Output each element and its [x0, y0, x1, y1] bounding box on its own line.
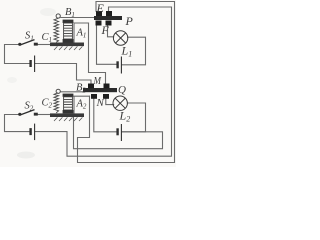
node A1 frame box	[74, 23, 89, 42]
wire battery1 right to contact M-left	[35, 64, 91, 84]
contact N left square	[91, 94, 97, 99]
switch S2	[18, 110, 38, 116]
svg-text:A1: A1	[76, 28, 87, 40]
svg-text:C1: C1	[42, 32, 53, 44]
contact N right square	[103, 94, 109, 99]
relay2 core top cap	[63, 94, 74, 97]
svg-text:B1: B1	[65, 7, 75, 19]
battery L2 (lamp circuit 2)	[118, 124, 122, 141]
wire S2 right to relay2 base	[38, 114, 51, 116]
wire armature B2 bar	[61, 91, 84, 93]
relay2 base hatching	[54, 117, 82, 121]
svg-text:F: F	[101, 23, 110, 37]
svg-text:Q: Q	[118, 84, 126, 96]
relay1 core top cap	[63, 20, 74, 23]
wire battery L2 right extension to relay2 base	[74, 117, 163, 149]
relay1 armature bar P	[94, 16, 122, 20]
relay1 coil winding	[64, 23, 73, 39]
contact E right square	[106, 11, 112, 16]
relay2 base	[50, 113, 84, 117]
contact M left square	[88, 84, 94, 89]
wire F-left down to lamp battery L1 left	[97, 25, 117, 64]
contact F left square	[96, 21, 102, 26]
svg-text:L1: L1	[121, 44, 133, 59]
relay2 spring C2	[54, 93, 59, 113]
wire E-right long loop to battery2 right	[35, 7, 171, 156]
lamp L1	[113, 31, 127, 45]
relay2 coil winding	[64, 97, 73, 110]
svg-text:S1: S1	[25, 31, 34, 43]
relay1 core bottom cap	[63, 39, 74, 43]
wire F-right to lamp L1	[108, 25, 114, 37]
svg-text:E: E	[96, 1, 105, 15]
smudge	[17, 152, 35, 159]
svg-text:M: M	[93, 75, 102, 87]
svg-text:N: N	[96, 97, 105, 109]
relay1 base hatching	[54, 46, 82, 50]
svg-text:L2: L2	[119, 109, 131, 124]
node A2 frame box	[74, 96, 90, 113]
contact F right square	[106, 21, 112, 26]
relay2 core bottom cap	[63, 110, 74, 113]
wire S1 right to relay1 base	[38, 44, 51, 46]
svg-text:P: P	[125, 14, 134, 28]
relay2 armature pivot	[56, 89, 60, 93]
wire lamp L2 right to battery L2 right	[122, 103, 146, 132]
svg-text:A2: A2	[76, 99, 87, 111]
contact M right square	[104, 84, 110, 89]
svg-text:S2: S2	[25, 101, 34, 113]
wire S2 left to battery2 left	[5, 115, 30, 132]
battery2 (coil circuit 2)	[31, 124, 35, 141]
switch S1	[18, 40, 38, 46]
relay1 spring C1	[54, 18, 59, 42]
svg-text:B2: B2	[76, 83, 86, 95]
svg-text:C2: C2	[42, 98, 53, 110]
wire coil1 return (A1 edge) to contact M-right	[89, 23, 106, 84]
battery1 (coil circuit 1)	[31, 56, 35, 73]
wire S1 left to battery B1-	[5, 45, 30, 64]
wire lamp L1 right loop to battery right	[122, 37, 146, 65]
relay2 armature bar Q	[83, 88, 117, 92]
wire E-left outer loop to coil2 return	[78, 2, 175, 163]
wire N-left down to battery L2 left	[94, 99, 117, 132]
relay1 base	[50, 43, 84, 47]
wire N-right to lamp L2	[106, 99, 114, 105]
relay1 armature pivot	[56, 14, 60, 18]
lamp L2	[113, 96, 127, 110]
wire armature B1 bar	[61, 17, 95, 19]
battery L1 (lamp circuit 1)	[118, 57, 122, 74]
contact E left square	[96, 11, 102, 16]
